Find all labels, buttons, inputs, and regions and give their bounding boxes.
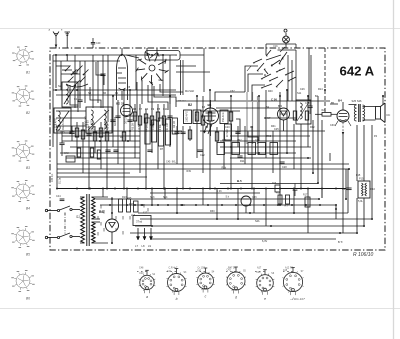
shielded lead 3	[257, 96, 259, 144]
wire bus y101	[176, 100, 330, 102]
wire step U1	[148, 85, 168, 110]
wire bus y233	[130, 232, 357, 234]
node bus205 x168	[167, 204, 169, 206]
junction node 40	[237, 218, 239, 220]
wire vertical x177	[176, 126, 178, 164]
resistor R10	[119, 199, 123, 212]
wire mid link y108	[216, 107, 280, 109]
wire left vertical x57	[56, 126, 58, 189]
node bus205 x320	[319, 204, 321, 206]
choke S16	[133, 216, 151, 226]
wire seg y111	[56, 110, 86, 112]
svg-text:B4: B4	[338, 99, 342, 103]
svg-text:— DG·107: — DG·107	[289, 297, 305, 301]
tube B7 tuning indicator	[241, 196, 251, 206]
chassis node x127	[126, 188, 128, 190]
power transformer S1	[76, 194, 108, 246]
resistor R36	[278, 195, 282, 204]
wire bus y177 x57	[57, 176, 147, 178]
svg-text:ARL 443: ARL 443	[114, 116, 117, 126]
chassis bus y188.5	[57, 188, 346, 190]
coil unit S18 upper	[62, 82, 78, 107]
capacitor C24	[279, 161, 284, 163]
node x231	[230, 188, 232, 190]
junction node 5	[151, 54, 153, 56]
resistor box R16	[225, 124, 232, 140]
wire vertical top x311	[310, 55, 312, 101]
node x252	[251, 188, 253, 190]
svg-text:C49: C49	[96, 42, 101, 45]
capacitor C15	[59, 142, 64, 144]
resistor row2 R42	[248, 143, 256, 155]
wire vertical x238	[237, 126, 239, 147]
svg-text:C11: C11	[163, 108, 168, 111]
wire vertical x245	[244, 126, 246, 164]
wire vertical x170	[169, 96, 171, 147]
shielded lead 1	[246, 92, 248, 144]
junction node 12	[169, 95, 171, 97]
tube B6 rectifier	[106, 219, 119, 232]
node x183	[182, 188, 184, 190]
svg-text:C42: C42	[197, 271, 202, 273]
socket pin marks x293	[283, 271, 285, 273]
node bus205 x110	[109, 204, 111, 206]
svg-text:C36: C36	[252, 196, 257, 199]
node bus205 x306	[305, 204, 307, 206]
wire drop x127	[126, 189, 128, 200]
node bus205 x196	[195, 204, 197, 206]
wire vertical x183	[182, 126, 184, 189]
wire osc step5	[215, 92, 245, 101]
wire earth drop	[66, 55, 68, 61]
node bus205 x250	[249, 204, 251, 206]
resistor R3	[93, 132, 96, 141]
tube base diagram f	[282, 267, 304, 301]
wire drop x203	[202, 189, 204, 206]
wire bus y95	[56, 94, 176, 96]
wire pair right of star	[180, 60, 182, 95]
svg-text:S18 AFG: S18 AFG	[55, 118, 58, 128]
IF transformer can S20	[184, 110, 192, 124]
wire vertical x372	[371, 125, 373, 219]
svg-text:C39: C39	[305, 102, 310, 105]
capacitor C11	[86, 133, 91, 135]
svg-text:B3: B3	[26, 166, 30, 170]
wire drop x165	[164, 189, 166, 200]
junction node 45	[151, 225, 153, 227]
svg-text:C28: C28	[282, 166, 287, 169]
resistor box tall 5	[172, 118, 177, 134]
svg-text:A27: A27	[257, 267, 262, 270]
resistor row2 R43	[258, 143, 266, 155]
tube socket diagram B4	[11, 181, 34, 211]
junction node 27	[258, 152, 260, 154]
svg-text:B1: B1	[26, 71, 30, 75]
svg-text:C26: C26	[300, 88, 305, 91]
wire vertical x266	[265, 90, 267, 158]
svg-text:B5: B5	[26, 253, 30, 257]
wire vertical top x75	[74, 55, 76, 108]
wire top loop c	[266, 43, 296, 45]
socket pin marks x236	[226, 271, 228, 273]
mains lead upper	[47, 210, 57, 212]
svg-text:R14: R14	[318, 88, 323, 91]
wire seg y66	[176, 65, 196, 67]
potentiometer P15 P16	[358, 181, 370, 198]
capacitor C16	[174, 131, 179, 133]
chassis node x241	[240, 188, 242, 190]
scan artifact line bottom	[0, 308, 400, 310]
resistor box tall 3	[158, 118, 163, 146]
junction node 48	[335, 208, 337, 210]
wire vertical x146	[145, 109, 147, 189]
junction node 16	[258, 95, 260, 97]
wire vertical x107	[106, 122, 108, 189]
wire vertical x346	[345, 169, 347, 199]
capacitor C20	[113, 149, 118, 151]
wire bus y158 x230	[230, 157, 311, 159]
junction node 39	[216, 218, 218, 220]
wire vertical x308	[307, 96, 309, 147]
svg-text:S17: S17	[143, 212, 148, 215]
wire seg y193	[150, 192, 260, 194]
capacitor C13	[115, 115, 120, 117]
resistor R8	[144, 114, 147, 123]
svg-text:B.Tr: B.Tr	[338, 241, 343, 244]
wave change switch SK1	[65, 66, 89, 87]
B3 anode arrow 1	[204, 124, 208, 132]
capacitor C21	[147, 149, 152, 151]
junction node 17	[279, 95, 281, 97]
resistor R7b	[286, 195, 290, 204]
wire star up b	[156, 48, 158, 55]
capacitor C22	[197, 149, 202, 151]
wire bus y136 x230	[230, 135, 310, 137]
node bus205 x152	[151, 204, 153, 206]
earth terminal	[65, 31, 71, 33]
svg-text:C19 4n: C19 4n	[152, 122, 155, 130]
capacitor C42 box	[66, 156, 75, 162]
svg-text:R25: R25	[127, 197, 132, 200]
resistor R22	[90, 148, 93, 157]
tube base diagram e	[256, 270, 275, 301]
wire drop x177	[176, 189, 178, 214]
junction node 9	[112, 95, 114, 97]
wire bus y153 x60	[60, 152, 140, 154]
wire vertical x336	[335, 205, 337, 219]
wire vertical top x85	[84, 61, 86, 103]
svg-text:BG 31: BG 31	[116, 102, 125, 106]
wire vertical x330	[329, 153, 331, 161]
chassis border dash-dot	[50, 48, 385, 250]
wire vertical x83	[82, 122, 84, 173]
wire vertical x280	[279, 96, 281, 189]
wire bus y226	[135, 225, 364, 227]
junction node 20	[324, 89, 326, 91]
resistor box tall 1	[145, 118, 150, 144]
svg-text:C44: C44	[56, 195, 61, 198]
chassis node x308	[307, 188, 309, 190]
svg-text:R1 4n8: R1 4n8	[49, 116, 52, 124]
wire vertical x203	[202, 96, 204, 173]
wire vertical top x142	[141, 80, 143, 104]
svg-text:R39: R39	[187, 170, 192, 173]
wire vertical x152	[151, 110, 153, 153]
svg-text:5,9L: 5,9L	[358, 200, 363, 203]
resistor R7	[138, 116, 141, 125]
junction node 30	[312, 172, 314, 174]
wire top bus left	[53, 54, 163, 56]
svg-text:1500 AFG: 1500 AFG	[186, 111, 189, 122]
wire step U4	[130, 82, 137, 116]
wire vertical x77	[76, 122, 78, 158]
wire vertical x318	[317, 96, 319, 183]
junction node 7	[55, 89, 57, 91]
svg-text:642 A: 642 A	[340, 64, 375, 79]
tube base diagram c	[196, 268, 215, 299]
wire tube-OPT	[349, 104, 357, 106]
wire vertical x101	[100, 122, 102, 169]
tube B2 frequency changer	[126, 52, 169, 110]
resistor R9	[150, 116, 153, 125]
wire vertical x231	[230, 96, 232, 189]
svg-text:S14: S14	[163, 196, 168, 199]
capacitor ground C5x	[293, 188, 298, 190]
mains switch lower	[57, 236, 59, 238]
svg-text:R 106/10: R 106/10	[353, 252, 374, 258]
wire vertical x322	[321, 120, 323, 198]
junction node 47	[270, 225, 272, 227]
socket pin marks x265	[255, 271, 257, 273]
resistor R12	[188, 130, 191, 139]
junction node 49	[339, 232, 341, 234]
svg-text:L7: L7	[135, 244, 138, 248]
wire vertical x273	[272, 131, 274, 173]
junction node 4	[121, 54, 123, 56]
wire vertical x164	[163, 104, 165, 189]
coil unit S19-S20	[86, 107, 112, 133]
svg-text:452 AFG: 452 AFG	[222, 112, 225, 122]
wire vertical x224	[223, 131, 225, 169]
svg-text:C 57: C 57	[265, 116, 271, 120]
wire vertical x124	[123, 90, 125, 189]
wire bus y90	[53, 89, 176, 91]
tube B3 oscillator	[247, 47, 296, 101]
coils L7 L8 L9	[135, 228, 153, 248]
wire vertical x313	[312, 120, 314, 173]
wire lamp feed	[278, 49, 297, 51]
mains switch upper	[57, 209, 59, 211]
tube socket diagram B1	[12, 46, 34, 74]
capacitor C19	[105, 149, 110, 151]
svg-text:Cr 107: Cr 107	[198, 267, 206, 270]
svg-text:S11: S11	[297, 92, 302, 95]
wire vertical x364	[363, 125, 365, 181]
svg-text:DG 1N: DG 1N	[125, 116, 128, 124]
capacitor C23	[237, 155, 242, 157]
chassis node x177	[176, 188, 178, 190]
wire bus y141 x62	[62, 140, 140, 142]
wire vertical x364	[363, 198, 365, 226]
wire vertical top x93	[92, 55, 94, 108]
chassis node x138	[137, 188, 139, 190]
resistor R2	[81, 130, 84, 139]
tube B4 IF amplifier	[203, 100, 219, 136]
junction node 46	[249, 212, 251, 214]
node x146	[145, 188, 147, 190]
node bus205 x222	[221, 204, 223, 206]
wire bus y136 x62	[62, 135, 140, 137]
wire vertical x357	[356, 125, 358, 181]
capacitor C39	[346, 187, 351, 189]
svg-text:P15: P15	[359, 178, 364, 181]
wire vertical top x103	[102, 55, 104, 108]
wire drop x294	[293, 189, 295, 214]
node x124	[123, 188, 125, 190]
chassis node x152	[151, 188, 153, 190]
svg-text:B4: B4	[26, 207, 30, 211]
wire vertical top x80	[79, 61, 81, 96]
svg-text:S13: S13	[150, 196, 155, 199]
svg-text:C30: C30	[330, 124, 335, 127]
wire OPT-speaker top	[363, 106, 376, 108]
svg-text:DC: DC	[387, 113, 391, 117]
wire lamp-osc	[266, 55, 281, 60]
junction node 35	[111, 198, 113, 200]
resistor row2 R40	[217, 143, 225, 155]
wire vertical x252	[251, 126, 253, 189]
svg-text:R11: R11	[240, 160, 245, 163]
node bus205 x264	[263, 204, 265, 206]
junction node 19	[307, 95, 309, 97]
tube base diagram b	[167, 269, 188, 302]
chassis node x322	[321, 188, 323, 190]
junction node 38	[176, 212, 178, 214]
wire vertical x210	[209, 90, 211, 189]
wire bus y219	[140, 218, 372, 220]
wire bus y164 x57	[57, 163, 349, 165]
wire vertical top x136	[135, 55, 137, 90]
junction node 33	[318, 198, 320, 200]
junction node 13	[196, 95, 198, 97]
wire vertical x301	[300, 124, 302, 189]
junction node 28	[286, 152, 288, 154]
svg-text:C40: C40	[139, 273, 144, 275]
svg-text:C21 10n: C21 10n	[166, 122, 169, 132]
svg-text:R17: R17	[303, 194, 308, 197]
junction node 50	[356, 232, 358, 234]
svg-text:R30: R30	[210, 210, 215, 213]
resistor R16	[229, 112, 232, 121]
wire vertical x204	[203, 48, 205, 92]
wire vertical top x309	[308, 48, 310, 101]
detector diode	[278, 108, 290, 120]
resistor R6	[133, 112, 136, 121]
capacitor C49	[91, 42, 95, 44]
tube base diagram d	[226, 267, 247, 300]
chassis node x294	[293, 188, 295, 190]
junction node 37	[157, 204, 159, 206]
svg-text:B2: B2	[188, 103, 192, 107]
wire left vertical x53	[52, 55, 54, 147]
speaker feed node	[382, 95, 384, 97]
junction node 25	[127, 140, 129, 142]
tube B1 RF amplifier	[117, 48, 128, 100]
capacitor C12	[110, 119, 115, 121]
tuning gang box	[145, 51, 180, 61]
chassis node x203	[202, 188, 204, 190]
junction node 29	[307, 157, 309, 159]
junction node 23	[129, 130, 131, 132]
electrolytic C45	[134, 201, 139, 212]
junction node 14	[209, 89, 211, 91]
chassis node x254	[253, 188, 255, 190]
junction node 51	[363, 225, 365, 227]
coil unit S1 lower	[54, 108, 71, 133]
node x210	[209, 188, 211, 190]
node x301	[300, 188, 302, 190]
junction node 21	[71, 130, 73, 132]
svg-text:R59: R59	[267, 135, 272, 138]
chassis node x228	[227, 188, 229, 190]
wire vertical x118	[117, 100, 119, 164]
junction node 41	[279, 204, 281, 206]
wire vertical x113	[112, 96, 114, 147]
capacitor C3 top	[72, 71, 77, 73]
resistor row2 R41	[232, 143, 240, 155]
svg-text:R16: R16	[272, 183, 277, 185]
wire bus y239	[150, 238, 336, 240]
chassis node x115	[114, 188, 116, 190]
chassis node x103	[102, 188, 104, 190]
svg-text:R5 50k: R5 50k	[159, 124, 162, 132]
tube socket diagram B6	[11, 271, 34, 301]
svg-text:B.5: B.5	[237, 179, 242, 183]
resistor R14	[201, 116, 204, 125]
resistor R17	[293, 111, 296, 120]
capacitor C15	[167, 115, 172, 117]
wire vertical top x163	[162, 55, 164, 96]
node bus205 x236	[235, 204, 237, 206]
wire drop x238	[237, 189, 239, 220]
wire step h1	[56, 65, 70, 67]
wire bus y205	[100, 204, 336, 206]
wire osc step3	[248, 74, 263, 92]
svg-text:L8: L8	[142, 244, 145, 248]
svg-text:B2: B2	[26, 111, 30, 115]
svg-text:F15: F15	[356, 174, 361, 177]
wire step a	[70, 85, 78, 112]
junction node 2	[55, 54, 57, 56]
wire bus y199	[96, 198, 319, 200]
wire vertical x135	[134, 104, 136, 158]
wire bus y147 x220	[220, 146, 311, 148]
wire seg y118b	[264, 117, 296, 119]
chassis node x336	[335, 188, 337, 190]
wire second bus	[53, 60, 120, 62]
svg-text:S25 S26: S25 S26	[352, 99, 363, 103]
svg-text:B6: B6	[99, 210, 104, 214]
scan artifact line top	[0, 28, 400, 30]
svg-text:R.7: R.7	[285, 205, 289, 208]
wire drop x266	[265, 189, 267, 227]
chassis node x266	[265, 188, 267, 190]
wire drop x152	[151, 189, 153, 206]
junction node 44	[111, 212, 113, 214]
chassis node x77	[76, 188, 78, 190]
junction node 42	[293, 212, 295, 214]
junction node 36	[134, 204, 136, 206]
